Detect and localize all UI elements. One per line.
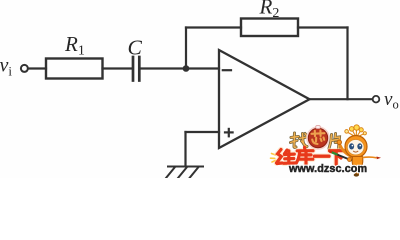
svg-text:www.dzsc.com: www.dzsc.com [288,163,367,175]
watermark text glow [277,150,345,165]
wire input to R1 [28,67,46,69]
wire C to op-amp inverting input [141,67,220,69]
input terminal vi [21,65,28,72]
svg-text:vi: vi [0,55,12,79]
mascot antenna stalks [348,129,364,138]
mascot face [347,140,364,155]
char 一 [315,154,330,157]
mascot body [352,157,363,167]
ground [166,167,203,179]
mascot antenna balls [345,125,367,135]
svg-text:vo: vo [384,89,399,111]
char 库 [303,147,307,150]
mascot shoe [354,173,359,176]
wire non-inverting input [186,131,220,133]
mascot right hand tip [377,157,382,160]
capacitor C [133,57,139,81]
mascot head [345,136,367,158]
wire output [309,98,372,100]
mascot hand on pen [348,158,352,162]
svg-text:R2: R2 [259,0,280,21]
mascot legs [355,166,359,175]
output terminal vo [373,96,380,103]
wire feedback vertical right [346,28,348,100]
wire feedback to R2 [186,26,241,28]
watermark seal circle with 芯 [307,126,329,149]
svg-text:C: C [128,35,143,59]
watermark sparkle [271,154,276,163]
op-amp U1 [219,50,310,148]
mascot pen [330,152,353,161]
resistor R2 [241,19,298,37]
wire R1 to C [103,67,132,69]
mascot right arm [363,156,377,159]
char 维 [277,150,282,164]
wire R2 to right [298,26,348,28]
plus sign non-inverting input [225,131,233,133]
watermark char 片 [329,134,340,149]
svg-text:R1: R1 [64,32,85,59]
wire feedback vertical left [185,28,187,69]
mascot eyes [349,143,354,149]
watermark char 找 [291,133,308,147]
minus sign inverting input [223,69,231,71]
char 下 [330,149,345,152]
junction node [183,65,190,72]
mascot left arm [340,145,353,157]
resistor R1 [46,59,103,79]
mascot mouth [353,151,358,152]
watermark logo [271,125,382,177]
watermark text 维库一下 (red) [277,147,345,164]
